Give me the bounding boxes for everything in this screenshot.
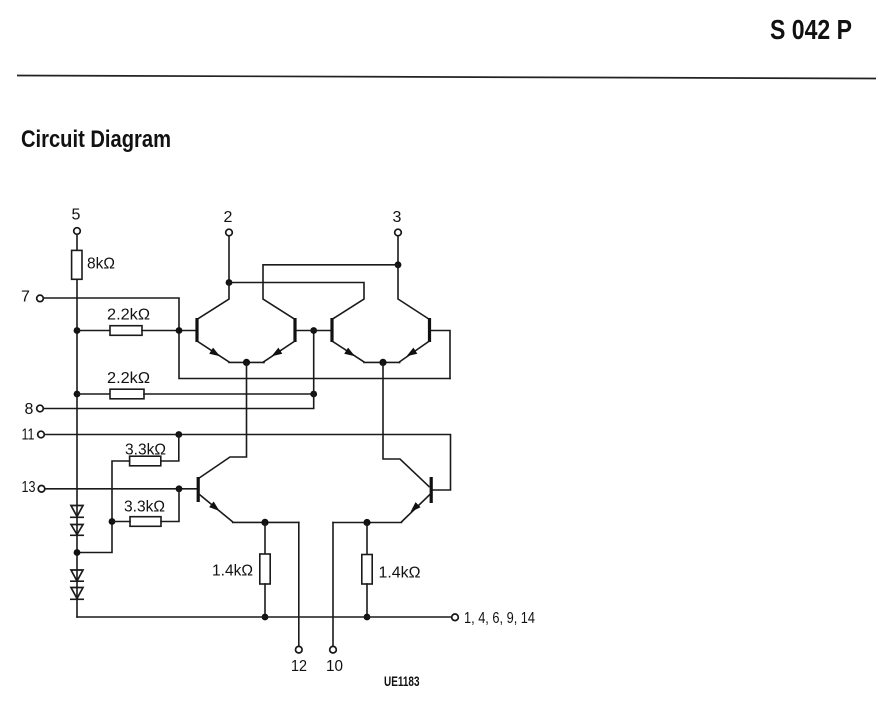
svg-text:3.3kΩ: 3.3kΩ [124, 499, 165, 516]
svg-text:Circuit Diagram: Circuit Diagram [21, 126, 171, 153]
pin 13 terminal [38, 486, 45, 493]
transistor Q4 base bar [428, 318, 431, 342]
label 1.4k ohm right [379, 565, 421, 582]
label 1.4k ohm left [212, 563, 253, 580]
page header title S 042 P [770, 14, 852, 45]
wire R3 left lead [77, 393, 110, 395]
arrowhead Q2 emitter [270, 348, 283, 360]
wire pin 8 to inner bases [43, 331, 313, 409]
svg-text:7: 7 [21, 289, 30, 306]
transistor Q6 base bar [430, 477, 433, 503]
diode D3 [71, 570, 83, 581]
node junction 1.4k upper right [363, 519, 370, 526]
label 3.3k ohm upper [125, 442, 166, 459]
wire Q3 collector cross link [229, 283, 364, 319]
svg-text:UE1183: UE1183 [384, 673, 420, 689]
wire R2 left lead [77, 330, 110, 332]
diode D1 [71, 506, 83, 518]
wire R7 upper lead [366, 523, 368, 555]
wire Q5 emitter [200, 495, 299, 523]
wire Q5 collector riser [200, 362, 247, 477]
svg-text:S 042 P: S 042 P [770, 14, 852, 45]
node junction Q1/Q3 collectors [226, 279, 233, 286]
svg-text:1.4kΩ: 1.4kΩ [379, 565, 421, 582]
wire R4 right lead riser [161, 435, 179, 462]
transistor Q1 base bar [195, 318, 198, 342]
wire R6 upper lead [264, 522, 266, 554]
label 3.3k ohm lower [124, 499, 165, 516]
wire R2 right lead to Q1 base [142, 330, 196, 332]
wire Q4 base drop to bias rail [431, 331, 450, 379]
label 2.2k ohm upper [107, 307, 150, 324]
resistor 3.3k ohm lower [130, 517, 161, 527]
diode D4 [71, 588, 83, 600]
wire pin 13 to Q5 base [45, 488, 197, 490]
pin 13 label [22, 479, 36, 496]
wire pin 2 vertical [228, 236, 230, 283]
svg-text:13: 13 [22, 479, 36, 496]
node junction R5 left lead [109, 518, 116, 525]
svg-text:10: 10 [326, 658, 343, 675]
pin 5 label [72, 207, 81, 224]
wire Q6 collector riser [383, 362, 429, 486]
wire Q2 emitter [264, 342, 295, 363]
wire Q1 emitter [198, 342, 264, 363]
pin 10 label [326, 658, 343, 675]
node junction R2 tap [74, 327, 81, 334]
wire Q2-Q3 base link [297, 330, 331, 332]
arrowhead Q4 emitter [405, 348, 418, 360]
arrowhead Q5 emitter [209, 502, 222, 514]
node junction 1.4k upper left [261, 519, 268, 526]
svg-text:2: 2 [224, 209, 233, 226]
node junction R3 tap [74, 391, 81, 398]
node junction right emitter pair [379, 359, 386, 366]
resistor 1.4k ohm right [362, 555, 372, 585]
terminal pins 1,4,6,9,14 [452, 614, 459, 621]
svg-text:5: 5 [72, 207, 81, 224]
svg-text:1, 4, 6, 9, 14: 1, 4, 6, 9, 14 [464, 610, 535, 627]
svg-text:2.2kΩ: 2.2kΩ [107, 307, 150, 324]
wire Q4 emitter [400, 342, 429, 363]
wire pin 3 vertical [397, 236, 399, 265]
transistor Q3 base bar [330, 318, 333, 342]
node junction left emitter pair [243, 359, 250, 366]
wire R5 right lead riser [161, 489, 179, 522]
wire to pin 10 [332, 523, 334, 647]
svg-text:8kΩ: 8kΩ [87, 256, 115, 273]
transistor Q2 base bar [293, 318, 296, 342]
node junction pin11 / R4 [175, 431, 182, 438]
pin 3 label [393, 209, 402, 226]
resistor 8k ohm [72, 250, 82, 279]
label pins 1,4,6,9,14 [464, 610, 535, 627]
svg-text:3: 3 [393, 209, 402, 226]
resistor 2.2k ohm upper [110, 326, 142, 336]
svg-text:3.3kΩ: 3.3kΩ [125, 442, 166, 459]
pin 10 terminal [330, 646, 337, 653]
arrowhead Q1 emitter [209, 348, 222, 360]
pin 8 label [25, 401, 34, 418]
pin 7 terminal [37, 295, 44, 302]
pin 8 terminal [37, 405, 44, 412]
pin 3 terminal [395, 229, 402, 236]
svg-text:11: 11 [22, 427, 35, 444]
resistor 2.2k ohm lower [110, 389, 144, 399]
drawing number UE1183 [384, 673, 420, 689]
wire R7 lower lead [366, 584, 368, 617]
wire R5 left lead [112, 521, 130, 523]
pin 7 label [21, 289, 30, 306]
wire pin 11 to Q6 base [44, 435, 450, 491]
pin 5 terminal [74, 228, 81, 235]
pin 2 terminal [226, 229, 233, 236]
horizontal rule [17, 76, 876, 79]
svg-text:2.2kΩ: 2.2kΩ [107, 370, 150, 387]
wire R3 right lead [144, 393, 314, 395]
pin 2 label [224, 209, 233, 226]
pin 12 terminal [296, 646, 303, 653]
wire Q1 collector [198, 283, 229, 319]
pin 11 terminal [38, 431, 45, 438]
node junction pin7/Q1 base [176, 327, 183, 334]
resistor 1.4k ohm left [260, 554, 270, 584]
node junction R3 / pin8 riser [310, 391, 317, 398]
arrowhead Q3 emitter [344, 348, 357, 360]
wire pin 7 to bias rail [43, 298, 450, 379]
node junction pin13 / R5 [176, 485, 183, 492]
wire pin5 stem [76, 235, 78, 251]
node junction R6 on rail [262, 614, 269, 621]
wire ground rail [77, 616, 452, 618]
node junction diode chain tap [74, 549, 81, 556]
resistor 3.3k ohm upper [130, 456, 161, 466]
svg-text:1.4kΩ: 1.4kΩ [212, 563, 253, 580]
arrowhead Q6 emitter [408, 502, 421, 514]
wire Q2 collector cross link [263, 265, 398, 319]
wire main left vertical [76, 279, 78, 617]
diode D2 [71, 525, 83, 536]
label 2.2k ohm lower [107, 370, 150, 387]
pin 11 label [22, 427, 35, 444]
pin 12 label [291, 658, 307, 675]
wire to pin 12 [298, 522, 300, 646]
node junction Q2/Q4 collectors [395, 261, 402, 268]
svg-text:8: 8 [25, 401, 34, 418]
wire R6 lower lead [264, 584, 266, 617]
heading Circuit Diagram [21, 126, 171, 153]
wire R4 left lead and drop to diode chain [77, 461, 130, 553]
wire Q4 collector [398, 265, 429, 319]
wire Q6 emitter [333, 495, 430, 523]
svg-text:12: 12 [291, 658, 307, 675]
transistor Q5 base bar [197, 477, 200, 502]
node junction R7 on rail [364, 614, 371, 621]
node junction Q2/Q3 bases [310, 327, 317, 334]
label 8k ohm [87, 256, 115, 273]
wire Q3 emitter [333, 342, 400, 363]
